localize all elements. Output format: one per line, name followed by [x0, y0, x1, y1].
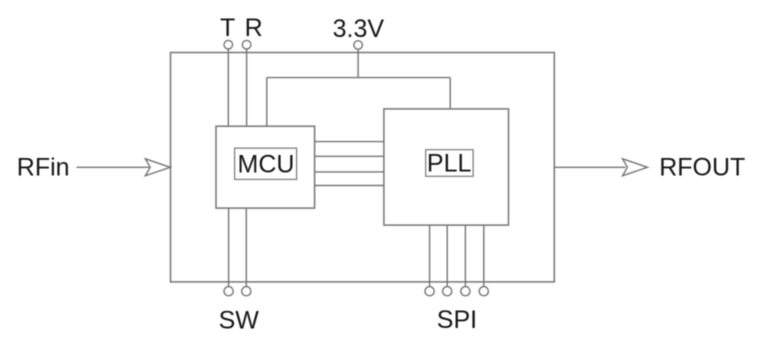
wire SPI 4 — [483, 225, 485, 287]
wire RFOUT — [554, 166, 625, 168]
arrowhead RFin — [145, 159, 170, 176]
svg-text:SPI: SPI — [437, 306, 477, 334]
svg-text:SW: SW — [219, 307, 260, 335]
pin SPI 4 — [479, 287, 488, 296]
wire SPI 2 — [446, 225, 448, 287]
PLL label — [426, 150, 473, 178]
block PLL — [384, 109, 509, 225]
wire T to MCU — [227, 49, 229, 126]
wire SPI 1 — [429, 225, 431, 287]
pin T — [224, 40, 233, 49]
wire 3.3V drop stub — [357, 49, 359, 77]
svg-text:T: T — [220, 14, 235, 42]
label RFOUT — [659, 153, 745, 181]
pin R — [242, 40, 251, 49]
pin SW 2 — [242, 287, 251, 296]
wire 3.3V rail — [267, 77, 450, 79]
wire RFin — [76, 166, 149, 168]
wire MCU-PLL bus line 3 — [315, 171, 384, 173]
svg-text:RFin: RFin — [17, 153, 70, 181]
block MCU — [216, 126, 315, 208]
label 3.3V — [333, 15, 385, 43]
svg-text:PLL: PLL — [427, 150, 472, 178]
MCU label — [235, 148, 297, 179]
wire SW 1 — [228, 208, 230, 287]
wire R to MCU — [246, 49, 248, 126]
label R — [245, 14, 263, 42]
wire 3.3V to PLL — [449, 78, 451, 109]
wire MCU-PLL bus line 1 — [315, 141, 384, 143]
wire MCU-PLL bus line 2 — [315, 155, 384, 157]
pin SPI 1 — [425, 287, 434, 296]
label SPI — [437, 306, 477, 334]
label SW — [219, 307, 260, 335]
outer box (module boundary) — [171, 53, 555, 282]
label T — [220, 14, 235, 42]
arrowhead RFOUT — [623, 159, 648, 176]
wire 3.3V to MCU — [266, 78, 268, 127]
wire SPI 3 — [464, 225, 466, 287]
label RFin — [17, 153, 70, 181]
pin SW 1 — [224, 287, 233, 296]
wire SW 2 — [245, 208, 247, 287]
svg-text:MCU: MCU — [238, 151, 295, 179]
svg-text:RFOUT: RFOUT — [659, 153, 745, 181]
pin SPI 2 — [443, 287, 452, 296]
pin SPI 3 — [461, 287, 470, 296]
wire MCU-PLL bus line 4 — [315, 185, 384, 187]
svg-text:R: R — [245, 14, 263, 42]
svg-text:3.3V: 3.3V — [333, 15, 385, 43]
pin 3.3V — [354, 41, 363, 50]
